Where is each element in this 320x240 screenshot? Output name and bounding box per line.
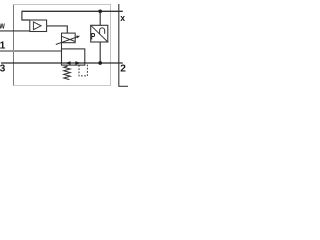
svg-text:3: 3 xyxy=(0,64,6,75)
valve flow arrowhead right xyxy=(75,61,81,65)
svg-text:1: 1 xyxy=(0,41,6,52)
background xyxy=(0,0,128,90)
wire solenoid to main valve xyxy=(61,43,63,49)
wire sensor to output line xyxy=(99,42,101,63)
wire port 1 (grey supply line) xyxy=(0,50,62,52)
svg-text:P: P xyxy=(91,31,96,41)
svg-text:w: w xyxy=(0,20,5,30)
svg-text:2: 2 xyxy=(120,64,126,75)
node junction dot on top line xyxy=(98,9,102,13)
wire port 3 / port 2 main line xyxy=(1,62,123,64)
amplifier triangle xyxy=(33,22,41,30)
wire sensor to top line xyxy=(99,11,101,25)
valve flow arrowhead left xyxy=(65,61,70,65)
enclosure bottom edge xyxy=(13,85,111,87)
wire feedback top line to x xyxy=(22,10,123,12)
wire amplifier output to pilot solenoid xyxy=(47,26,68,33)
dashed pilot feedback line xyxy=(79,64,87,76)
enclosure left edge xyxy=(12,4,14,86)
proportional arrow through solenoid xyxy=(56,36,80,45)
spring (regulator spring) xyxy=(64,65,70,80)
solenoid diagonal xyxy=(62,36,76,41)
solenoid box (proportional pilot) xyxy=(62,33,76,43)
valve V1 (main regulator body) xyxy=(62,49,85,65)
enclosure top edge xyxy=(13,3,111,5)
node junction dot on line 2 xyxy=(98,61,102,65)
sensor arc symbol xyxy=(100,28,105,34)
svg-text:x: x xyxy=(120,13,125,23)
wire w (setpoint line) xyxy=(0,30,30,32)
wire feedback stub into amplifier top xyxy=(22,11,30,20)
sensor diagonal xyxy=(91,25,108,42)
enclosure right edge xyxy=(110,4,112,86)
frame of adjacent symbol (right) xyxy=(119,4,128,86)
op-amp U1 (proportional amplifier box) xyxy=(30,20,47,32)
sensor box (pressure transducer) xyxy=(91,25,108,42)
